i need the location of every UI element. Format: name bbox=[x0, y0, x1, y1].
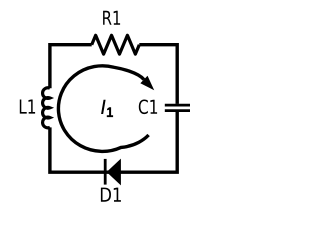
label C1 bbox=[139, 99, 157, 114]
loop current arrowhead bbox=[140, 76, 154, 90]
label R1 bbox=[103, 11, 120, 25]
label I1 subscript 1 bbox=[107, 107, 113, 117]
wire right lower segment + bottom wire + left wire lower segment bbox=[50, 112, 177, 172]
inductor L1 (4 loops on left wire) bbox=[43, 88, 50, 128]
capacitor C1 top plate bbox=[165, 104, 190, 107]
resistor R1 bbox=[92, 35, 140, 54]
label I1 (italic I) bbox=[101, 100, 106, 114]
diode D1 triangle bbox=[107, 159, 121, 186]
label D1 bbox=[101, 188, 121, 202]
capacitor C1 bottom plate bbox=[165, 109, 190, 112]
loop current arrow (clockwise) bbox=[58, 66, 148, 152]
wire top-left: left wire upper segment + top wire left segment bbox=[50, 45, 92, 88]
label L1 bbox=[20, 100, 35, 114]
diode D1 cathode bar bbox=[104, 159, 107, 185]
wire top-right: top wire right segment + right wire upper segment bbox=[139, 45, 177, 104]
